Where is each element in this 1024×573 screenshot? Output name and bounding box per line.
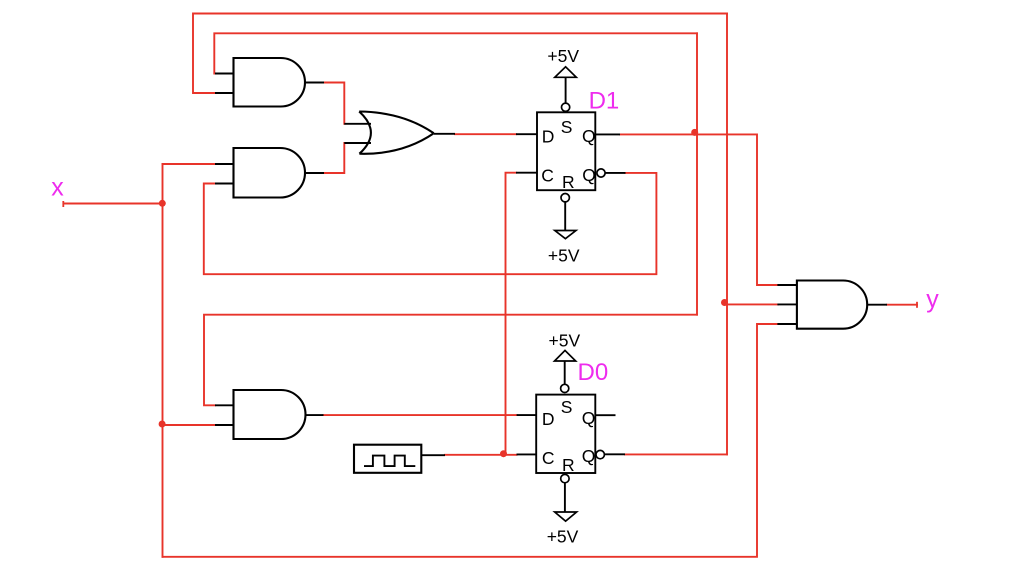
wire x to AND2 input A	[163, 163, 216, 165]
D0 Qbar lead	[604, 453, 625, 455]
wire x to AND3 input B	[163, 424, 216, 426]
svg-text:R: R	[562, 455, 575, 475]
wires (red nets)	[64, 14, 918, 557]
flip-flop D1 box	[537, 112, 595, 190]
clock source CLK box	[354, 445, 421, 473]
svg-text:y: y	[926, 286, 939, 314]
svg-text:Q: Q	[582, 126, 596, 146]
node junction dot D0 Qbar / AND4 input B	[721, 299, 728, 306]
D1 S bubble	[562, 103, 570, 111]
svg-text:Q: Q	[582, 165, 596, 185]
svg-text:x: x	[51, 174, 64, 202]
AND3 output lead	[306, 414, 324, 416]
svg-text:Q: Q	[582, 446, 596, 466]
input terminal x tick	[62, 201, 64, 207]
D1 R pull wire	[564, 202, 566, 231]
svg-text:+5V: +5V	[547, 46, 579, 66]
wire D1 Q feedback trunk x697	[696, 33, 698, 314]
D0 S pull-up wire	[564, 361, 566, 384]
svg-text:+5V: +5V	[548, 246, 580, 266]
wire D0 Qbar trunk x727 up	[726, 14, 728, 455]
AND4 input leads	[777, 284, 797, 286]
wire AND1 output to OR input A	[324, 83, 344, 124]
and-gate U2 (mid left)	[234, 148, 306, 198]
node junction dot D1 Q / feedback trunk	[691, 129, 698, 136]
wire mid run to AND3 input A	[204, 315, 697, 406]
AND3 input leads	[215, 404, 234, 406]
svg-text:Q: Q	[582, 408, 596, 428]
black pin leads	[215, 74, 887, 456]
wire clock branch to D1 C	[506, 173, 517, 455]
AND1 output lead	[305, 82, 324, 84]
AND4 output lead	[867, 304, 887, 306]
node junction dot x/AND3 input	[159, 421, 166, 428]
and-gate U4 (output, 3-input)	[797, 281, 867, 329]
svg-text:D: D	[542, 409, 555, 429]
flip-flop D0 box	[536, 395, 595, 473]
power +5V symbol above D1	[555, 67, 577, 78]
D0 R bubble	[561, 474, 569, 482]
svg-text:C: C	[541, 165, 554, 185]
node junction dot x/AND2-AND3 split	[159, 200, 166, 207]
wire AND3 output to D0 D	[324, 414, 517, 416]
or-gate U5	[359, 112, 434, 154]
D1 D lead	[516, 133, 537, 135]
svg-text:S: S	[561, 397, 573, 417]
wire x net bottom run to AND4 input C	[163, 324, 779, 557]
wire D1 Qbar to AND2 input B	[204, 173, 657, 274]
wire AND2 output to OR input B	[324, 143, 344, 173]
svg-text:D: D	[542, 127, 555, 147]
svg-text:S: S	[561, 117, 573, 137]
D0 D lead	[517, 414, 537, 416]
svg-text:D0: D0	[578, 359, 609, 386]
D0 C lead	[517, 453, 537, 455]
power +5V symbol below D0	[555, 512, 577, 521]
power +5V symbol below D1	[555, 231, 576, 239]
D0 R pull wire	[564, 483, 566, 512]
clock waveform glyph	[364, 456, 415, 467]
wire D0 Qbar right run	[625, 453, 727, 455]
wire x input horizontal	[64, 203, 163, 205]
power +5V symbol above D0	[555, 350, 576, 361]
D1 S pull-up wire	[565, 77, 567, 103]
svg-text:+5V: +5V	[547, 526, 579, 546]
D1 R bubble	[561, 194, 569, 202]
D1 Qbar lead	[605, 172, 626, 174]
AND1 input leads	[215, 73, 234, 75]
D0 S bubble	[561, 384, 569, 392]
clock output lead	[422, 454, 446, 456]
D1 C lead	[516, 172, 537, 174]
OR input leads	[344, 123, 371, 125]
svg-text:R: R	[562, 172, 575, 192]
wire outer top run to AND1 input B	[193, 14, 727, 94]
and-gate U1 (top left)	[234, 58, 305, 107]
wire AND4 output to y terminal	[887, 304, 917, 306]
AND2 output lead	[305, 172, 324, 174]
svg-text:C: C	[542, 448, 555, 468]
D0 Qbar bubble	[596, 450, 604, 458]
OR output lead	[434, 133, 455, 135]
AND2 input leads	[215, 163, 234, 165]
wire inner top run to AND1 input A	[214, 33, 697, 73]
wire trunk to AND4 input B	[727, 303, 778, 305]
output terminal y tick	[916, 302, 918, 308]
and-gate U3 (lower left)	[234, 390, 306, 439]
D1 Qbar bubble	[597, 169, 605, 177]
svg-text:D1: D1	[589, 88, 620, 115]
svg-text:+5V: +5V	[549, 330, 581, 350]
wire x net vertical trunk	[162, 164, 164, 557]
D0 Q lead	[595, 414, 615, 416]
wire clock to D0 C	[445, 454, 517, 456]
wire OR output to D1 D	[455, 133, 516, 135]
D1 Q lead	[595, 133, 620, 135]
wire D1 Q to AND4 input A	[620, 134, 778, 285]
node junction dot clock / D1 C branch	[500, 450, 507, 457]
